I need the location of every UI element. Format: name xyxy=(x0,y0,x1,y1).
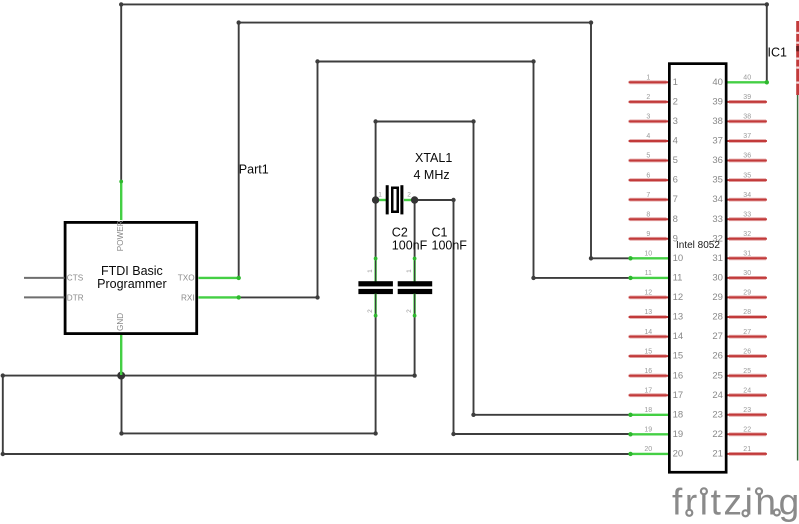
svg-text:27: 27 xyxy=(712,331,723,342)
svg-text:18: 18 xyxy=(644,407,652,414)
node endpoint (122,433) xyxy=(119,431,123,435)
IC1 pin 28 xyxy=(712,309,767,322)
svg-text:40: 40 xyxy=(712,77,723,88)
svg-text:1: 1 xyxy=(406,269,413,273)
crystal XTAL1 right green pin xyxy=(404,199,415,201)
svg-text:34: 34 xyxy=(743,192,751,199)
svg-text:13: 13 xyxy=(673,312,684,323)
svg-text:12: 12 xyxy=(644,290,652,297)
svg-text:38: 38 xyxy=(743,114,751,121)
svg-text:26: 26 xyxy=(712,351,723,362)
svg-text:15: 15 xyxy=(644,348,652,355)
IC1 pin 34 xyxy=(712,192,767,205)
svg-text:Programmer: Programmer xyxy=(97,277,166,291)
IC1 pin 3 xyxy=(629,114,678,127)
svg-text:1: 1 xyxy=(378,192,382,199)
svg-text:1: 1 xyxy=(367,269,374,273)
crystal XTAL1 left green pin xyxy=(376,199,387,201)
svg-text:2: 2 xyxy=(407,192,411,199)
IC1 pin 26 xyxy=(712,348,767,361)
svg-text:Intel 8052: Intel 8052 xyxy=(676,240,720,251)
svg-text:30: 30 xyxy=(743,270,751,277)
node bend (454,200) xyxy=(451,198,455,202)
svg-text:22: 22 xyxy=(743,427,751,434)
svg-text:17: 17 xyxy=(673,390,684,401)
svg-text:8: 8 xyxy=(673,214,678,225)
svg-text:2: 2 xyxy=(646,94,650,101)
svg-text:RXI: RXI xyxy=(181,293,195,302)
capacitor C2 top plate xyxy=(358,281,393,286)
FTDI GND green pin xyxy=(120,335,122,375)
wire RXI vertical up xyxy=(317,62,319,298)
junction GND node xyxy=(117,372,125,380)
IC1 pin 29 xyxy=(712,290,767,303)
IC1 pin 17 xyxy=(629,387,684,400)
wire to pin 18 xyxy=(474,414,632,416)
wire GND horizontal left xyxy=(3,375,121,377)
wire TXO to pin 10 xyxy=(591,257,631,259)
svg-text:1: 1 xyxy=(673,77,678,88)
svg-text:2: 2 xyxy=(673,97,678,108)
crystal XTAL1 body xyxy=(392,188,398,212)
svg-text:30: 30 xyxy=(712,273,723,284)
svg-text:C2: C2 xyxy=(392,226,408,240)
IC1 pin 37 xyxy=(712,133,767,146)
IC1 pin 31 xyxy=(712,251,767,264)
IC1 pin 24 xyxy=(712,387,767,400)
svg-text:38: 38 xyxy=(712,116,723,127)
wire RXI horizontal top xyxy=(318,61,534,63)
capacitor C1 bottom plate xyxy=(398,289,433,294)
svg-text:GND: GND xyxy=(116,313,125,331)
svg-text:2: 2 xyxy=(367,309,374,313)
node bend (318,62) xyxy=(315,59,319,63)
IC1 pin 33 xyxy=(712,211,767,224)
svg-text:31: 31 xyxy=(743,251,751,258)
fritzing logo i-dot masks xyxy=(698,484,709,495)
wire TXO vertical (Part1 wire) xyxy=(238,23,240,278)
wire GND horizontal right to C1 xyxy=(121,375,414,377)
wire GND junction down-leg xyxy=(121,376,123,434)
IC1 pin 2 xyxy=(629,94,678,107)
capacitor C2 bottom plate xyxy=(358,289,393,294)
svg-text:14: 14 xyxy=(644,329,652,336)
svg-text:13: 13 xyxy=(644,309,652,316)
IC1 pin 35 xyxy=(712,172,767,185)
svg-text:23: 23 xyxy=(743,407,751,414)
junction crystal pin2 xyxy=(411,196,418,203)
IC1 pin 30 xyxy=(712,270,767,283)
node bend (591,258) xyxy=(589,256,593,260)
svg-text:10: 10 xyxy=(673,253,684,264)
capacitor C1 top green pin xyxy=(413,257,415,282)
svg-text:21: 21 xyxy=(743,446,751,453)
wire down to pin 19 row xyxy=(453,200,455,434)
svg-text:7: 7 xyxy=(646,192,650,199)
svg-text:26: 26 xyxy=(743,348,751,355)
svg-text:20: 20 xyxy=(644,446,652,453)
node endpoint (415,376) xyxy=(412,373,416,377)
svg-text:C1: C1 xyxy=(432,226,448,240)
wire XTAL1-pin1 up xyxy=(375,122,377,201)
IC1 pin 16 xyxy=(629,368,684,381)
svg-text:25: 25 xyxy=(712,370,723,381)
IC1 pin 19 xyxy=(628,427,683,440)
svg-text:29: 29 xyxy=(712,292,723,303)
wire GND left vertical xyxy=(2,376,4,454)
svg-text:3: 3 xyxy=(673,116,678,127)
op IC1 body xyxy=(669,64,726,473)
svg-text:3: 3 xyxy=(646,114,650,121)
svg-text:32: 32 xyxy=(743,231,751,238)
svg-text:5: 5 xyxy=(673,155,678,166)
IC1 pin 12 xyxy=(629,290,684,303)
clipped part pins at right edge (red bar) xyxy=(796,21,799,95)
wire crystal pin2 down to C1 xyxy=(414,200,416,259)
svg-text:CTS: CTS xyxy=(67,274,84,283)
svg-text:40: 40 xyxy=(743,75,751,82)
wire net5V top horizontal xyxy=(121,3,767,5)
IC1 pin 32 xyxy=(712,231,767,244)
crystal XTAL1 left plate xyxy=(386,185,389,214)
node bend (318,297) xyxy=(315,295,319,299)
fritzing logo ring dots xyxy=(701,488,707,494)
svg-text:XTAL1: XTAL1 xyxy=(415,151,452,165)
node bend (474,415) xyxy=(471,413,475,417)
IC1 pin 27 xyxy=(712,329,767,342)
IC1 pin 4 xyxy=(629,133,678,146)
svg-text:37: 37 xyxy=(743,133,751,140)
node bend (474,122) xyxy=(471,119,475,123)
svg-text:33: 33 xyxy=(743,211,751,218)
IC1 pin 8 xyxy=(629,211,678,224)
IC1 pin 25 xyxy=(712,368,767,381)
svg-text:28: 28 xyxy=(712,312,723,323)
svg-text:36: 36 xyxy=(712,155,723,166)
IC1 pin 22 xyxy=(712,427,767,440)
wire C2 to GND junction leg xyxy=(122,432,376,434)
svg-text:14: 14 xyxy=(673,331,684,342)
svg-text:8: 8 xyxy=(646,211,650,218)
IC1 pin 15 xyxy=(629,348,684,361)
wire GND bottom to pin 20 xyxy=(3,453,631,455)
wire crystal pin1 down to C2 xyxy=(375,200,377,259)
svg-text:100nF: 100nF xyxy=(432,239,468,253)
crystal XTAL1 right plate xyxy=(400,185,403,214)
wire C2 bottom leg down xyxy=(375,317,377,434)
svg-text:33: 33 xyxy=(712,214,723,225)
svg-text:36: 36 xyxy=(743,153,751,160)
svg-text:TXO: TXO xyxy=(178,274,195,283)
svg-text:25: 25 xyxy=(743,368,751,375)
svg-text:18: 18 xyxy=(673,409,684,420)
FTDI POWER green pin xyxy=(120,180,122,220)
node bend (3,376) xyxy=(1,373,5,377)
svg-text:17: 17 xyxy=(644,387,652,394)
svg-text:15: 15 xyxy=(673,351,684,362)
svg-text:6: 6 xyxy=(646,172,650,179)
svg-text:5: 5 xyxy=(646,153,650,160)
IC1 pin 5 xyxy=(629,153,678,166)
wire net5V vertical down to pin 40 xyxy=(766,4,768,82)
svg-text:100nF: 100nF xyxy=(392,239,428,253)
wire TXO horizontal top xyxy=(239,22,591,24)
node bend at (767,4) xyxy=(765,2,769,6)
svg-text:24: 24 xyxy=(712,390,723,401)
svg-text:4: 4 xyxy=(673,136,678,147)
svg-text:4 MHz: 4 MHz xyxy=(414,168,450,182)
IC1 pin 36 xyxy=(712,153,767,166)
wire RXI horizontal from FTDI xyxy=(239,296,318,298)
wire RXI to pin 11 xyxy=(534,277,632,279)
svg-text:21: 21 xyxy=(712,449,723,460)
svg-text:28: 28 xyxy=(743,309,751,316)
svg-text:29: 29 xyxy=(743,290,751,297)
svg-text:19: 19 xyxy=(644,427,652,434)
svg-text:35: 35 xyxy=(743,172,751,179)
svg-text:22: 22 xyxy=(712,429,723,440)
wire net5V vertical from FTDI POWER up xyxy=(120,4,122,182)
wire RXI vertical down xyxy=(533,62,535,278)
svg-text:POWER: POWER xyxy=(116,220,125,251)
capacitor C1 top plate xyxy=(398,281,433,286)
IC1 pin 38 xyxy=(712,114,767,127)
wire XTAL1-pin1 horizontal top xyxy=(376,121,474,123)
node bend (591,23) xyxy=(589,20,593,24)
IC1 pin 7 xyxy=(629,192,678,205)
IC1 pin 14 xyxy=(629,329,684,342)
clipped wire at right edge (dark green) xyxy=(797,95,799,461)
IC1 pin 9 xyxy=(629,231,678,244)
IC1 pin 39 xyxy=(712,94,767,107)
svg-text:27: 27 xyxy=(743,329,751,336)
FTDI Basic Programmer body xyxy=(65,222,197,333)
node endpoint (376,433) xyxy=(373,431,377,435)
svg-text:35: 35 xyxy=(712,175,723,186)
wire C1 bottom leg down to GND xyxy=(414,317,416,376)
svg-text:IC1: IC1 xyxy=(768,46,788,60)
svg-text:12: 12 xyxy=(673,292,684,303)
FTDI pin DTR line xyxy=(24,296,65,298)
svg-text:19: 19 xyxy=(673,429,684,440)
svg-text:1: 1 xyxy=(646,75,650,82)
svg-text:7: 7 xyxy=(673,194,678,205)
svg-text:Part1: Part1 xyxy=(239,162,269,176)
svg-text:16: 16 xyxy=(644,368,652,375)
IC1 pin 18 xyxy=(628,407,683,420)
IC1 pin 40 xyxy=(712,75,769,88)
svg-text:11: 11 xyxy=(645,270,652,277)
node bend (3,454) xyxy=(1,452,5,456)
capacitor C2 top green pin xyxy=(374,257,376,282)
svg-text:20: 20 xyxy=(673,449,684,460)
node bend (376,122) xyxy=(373,119,377,123)
svg-text:37: 37 xyxy=(712,136,723,147)
node bend (534,278) xyxy=(531,276,535,280)
IC1 pin 21 xyxy=(712,446,767,459)
FTDI TXO green pin xyxy=(199,277,239,279)
wire crystal pin2 right xyxy=(415,199,454,201)
wire to pin 19 xyxy=(454,433,632,435)
IC1 pin 6 xyxy=(629,172,678,185)
svg-text:DTR: DTR xyxy=(67,293,84,302)
wire down to pin 18 row xyxy=(473,122,475,415)
IC1 pin 20 xyxy=(628,446,683,459)
IC1 pin 10 xyxy=(628,251,683,264)
node bend (239,23) xyxy=(237,20,241,24)
node bend (534,62) xyxy=(531,59,535,63)
svg-text:39: 39 xyxy=(712,97,723,108)
svg-text:23: 23 xyxy=(712,409,723,420)
capacitor C1 bottom green pin xyxy=(413,294,415,318)
node bend at (121,4) xyxy=(119,2,123,6)
junction crystal pin1 xyxy=(372,196,379,203)
IC1 pin 13 xyxy=(629,309,684,322)
svg-text:9: 9 xyxy=(646,231,650,238)
svg-text:10: 10 xyxy=(644,251,652,258)
svg-text:39: 39 xyxy=(743,94,751,101)
IC1 pin 11 xyxy=(628,270,682,283)
IC1 pin 1 xyxy=(629,75,678,88)
node bend (454,434) xyxy=(451,432,455,436)
FTDI RXI green pin xyxy=(199,296,239,298)
IC1 pin 23 xyxy=(712,407,767,420)
svg-text:6: 6 xyxy=(673,175,678,186)
svg-text:34: 34 xyxy=(712,194,723,205)
svg-text:2: 2 xyxy=(406,309,413,313)
svg-text:31: 31 xyxy=(712,253,723,264)
wire TXO vertical down xyxy=(590,23,592,259)
FTDI pin CTS line xyxy=(24,277,65,279)
svg-text:16: 16 xyxy=(673,370,684,381)
svg-text:11: 11 xyxy=(673,273,683,284)
svg-text:4: 4 xyxy=(646,133,650,140)
svg-text:24: 24 xyxy=(743,387,751,394)
capacitor C2 bottom green pin xyxy=(374,294,376,318)
